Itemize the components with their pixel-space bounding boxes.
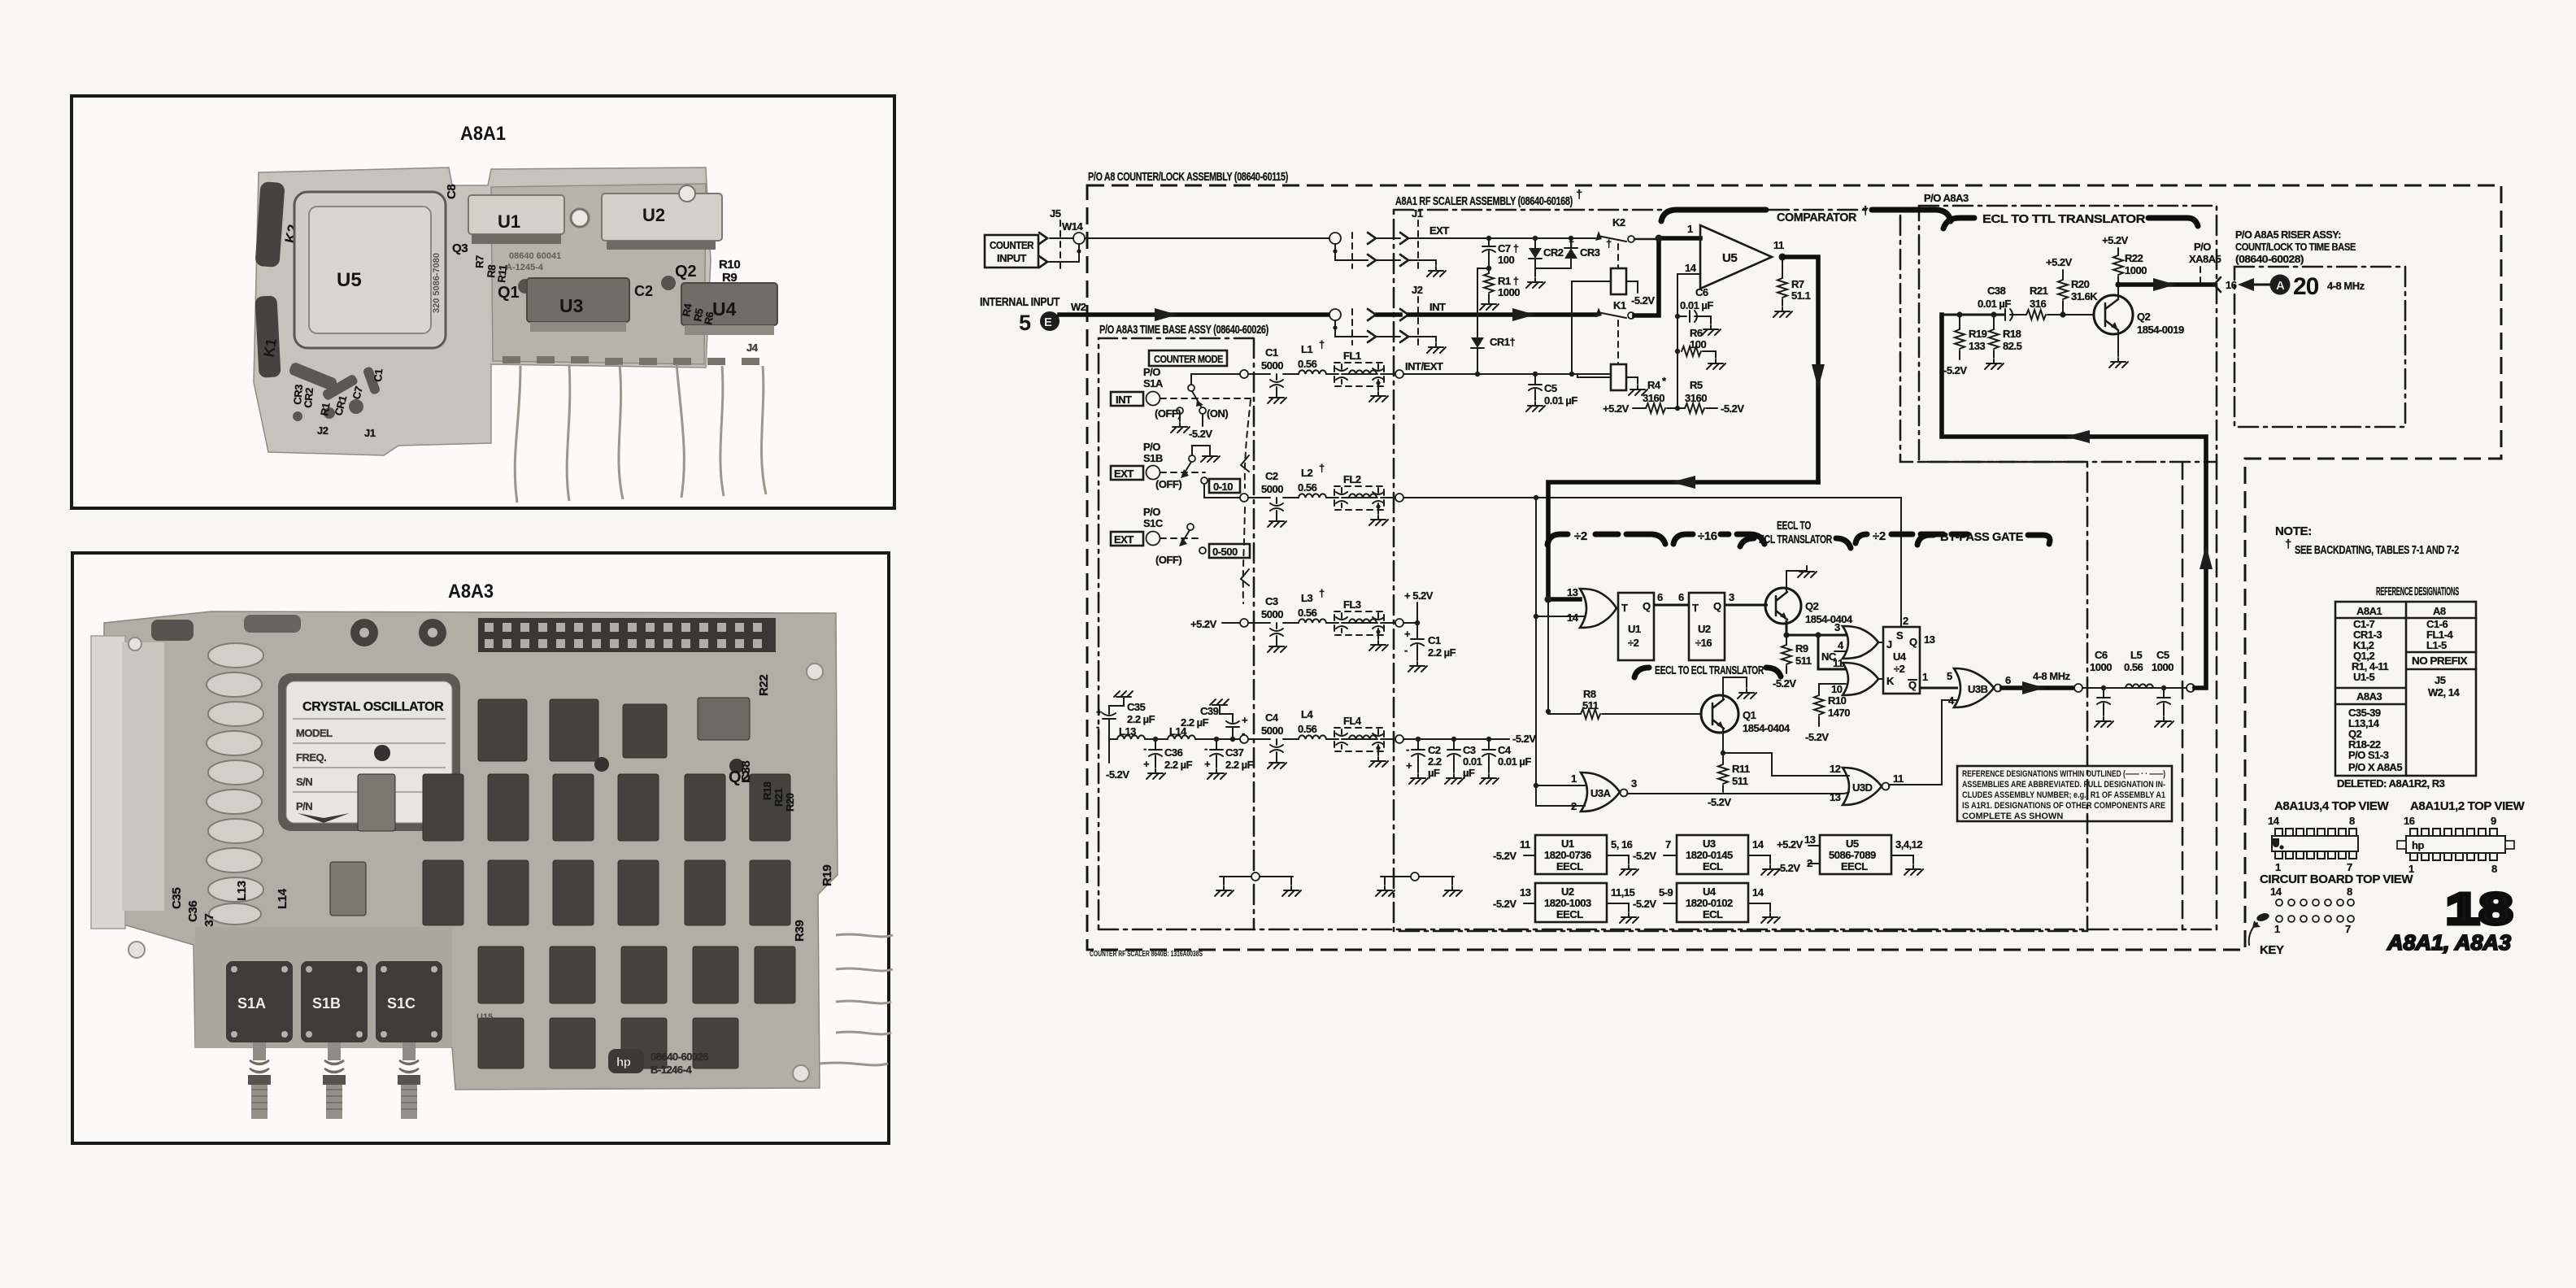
svg-text:U4: U4 xyxy=(1893,651,1907,663)
0-500 label xyxy=(1209,544,1250,558)
transistor cans xyxy=(374,745,744,773)
diode CR1 xyxy=(1471,337,1484,348)
svg-text:-5.2V: -5.2V xyxy=(1721,402,1744,415)
svg-text:+: + xyxy=(1404,628,1411,640)
svg-text:U2: U2 xyxy=(1698,623,1711,635)
wire U4 Qbar to U3B xyxy=(1920,687,1958,690)
resistor R7 xyxy=(1782,257,1783,278)
svg-text:COUNTER MODE: COUNTER MODE xyxy=(1154,353,1224,365)
capacitor C35 xyxy=(1103,701,1124,739)
filter FL1 xyxy=(1334,363,1384,386)
svg-text:16: 16 xyxy=(2226,279,2237,291)
svg-text:13: 13 xyxy=(1520,886,1531,899)
comparator title xyxy=(1661,210,1766,221)
relay K2 xyxy=(255,181,301,268)
resistor R1 xyxy=(1488,268,1490,273)
assembly boundary A8A3 TIME BASE xyxy=(1099,338,1254,929)
svg-text:KEY: KEY xyxy=(2260,943,2284,957)
svg-text:L13: L13 xyxy=(235,881,249,901)
svg-text:÷16: ÷16 xyxy=(1695,637,1712,649)
svg-text:U1: U1 xyxy=(1628,623,1641,635)
dark caps top left xyxy=(151,620,194,641)
wire INT line thick to K1 xyxy=(1409,312,1595,317)
wire EXT line to K2 xyxy=(1409,237,1595,239)
wire CR2 CR3 common to ground xyxy=(1535,268,1571,276)
svg-text:÷2: ÷2 xyxy=(1574,529,1587,543)
svg-text:J1: J1 xyxy=(364,427,376,439)
capacitor C3 0.01 xyxy=(1451,737,1456,742)
transistor Q2 (A8A1) xyxy=(1765,588,1801,624)
svg-text:L1-5: L1-5 xyxy=(2426,639,2447,651)
A8A3 dark DIP ICs grid xyxy=(330,698,795,1068)
svg-text:C1: C1 xyxy=(1428,634,1441,646)
svg-text:A8A1: A8A1 xyxy=(2356,605,2382,617)
filter FL3 xyxy=(1334,611,1384,635)
boundary dash at W14 connector xyxy=(1351,233,1353,268)
svg-text:C36: C36 xyxy=(186,901,200,922)
svg-text:1854-0019: 1854-0019 xyxy=(2137,324,2184,336)
svg-text:R22: R22 xyxy=(757,675,771,696)
svg-text:P/O A8A3 TIME BASE ASSY (08640: P/O A8A3 TIME BASE ASSY (08640-60026) xyxy=(1099,323,1268,337)
diode CR2 xyxy=(1533,236,1538,241)
inductor L14 xyxy=(1168,735,1195,739)
wire counter input lower pin xyxy=(1047,246,1079,262)
svg-text:(OFF): (OFF) xyxy=(1155,554,1181,566)
wire INT to J2 xyxy=(1377,312,1400,317)
svg-text:5000: 5000 xyxy=(1261,608,1283,620)
svg-text:08640 60041: 08640 60041 xyxy=(509,251,561,261)
svg-text:R6: R6 xyxy=(702,311,716,325)
COUNTER MODE label xyxy=(1149,350,1227,366)
svg-text:A8A3: A8A3 xyxy=(2356,690,2382,703)
svg-text:R8: R8 xyxy=(1583,688,1596,700)
svg-text:S1B: S1B xyxy=(1143,452,1163,464)
svg-text:IS A1R1. DESIGNATIONS OF OTH: IS A1R1. DESIGNATIONS OF OTHER COMPONENT… xyxy=(1962,801,2165,811)
svg-text:U15: U15 xyxy=(476,1012,493,1022)
transistor Q1 xyxy=(498,279,533,302)
svg-text:FL2: FL2 xyxy=(1343,473,1361,485)
svg-text:+5.2V: +5.2V xyxy=(2046,256,2073,268)
svg-text:R20: R20 xyxy=(784,793,796,812)
svg-text:1000: 1000 xyxy=(2152,661,2173,673)
svg-text:C38: C38 xyxy=(1987,285,2006,297)
lower left component cluster xyxy=(288,361,381,421)
svg-text:13: 13 xyxy=(1567,586,1578,598)
capacitor C2 5000 xyxy=(1268,498,1286,527)
C5 on INT/EXT line xyxy=(1533,372,1538,376)
wire EXT connector lower pin xyxy=(1335,251,1400,260)
svg-text:1820-0736: 1820-0736 xyxy=(1544,849,1591,861)
ground under R1 xyxy=(1480,300,1499,310)
svg-text:0.56: 0.56 xyxy=(2124,661,2143,673)
svg-text:÷2: ÷2 xyxy=(1873,529,1886,543)
svg-text:-5.2V: -5.2V xyxy=(1773,677,1796,690)
photo frame A8A1 xyxy=(72,96,894,508)
svg-text:0.56: 0.56 xyxy=(1298,358,1317,370)
svg-text:÷16: ÷16 xyxy=(1698,529,1717,543)
svg-text:R20: R20 xyxy=(2071,278,2090,290)
flip-flop U2 xyxy=(1689,593,1725,660)
svg-text:1854-0404: 1854-0404 xyxy=(1805,613,1853,625)
svg-text:4-8 MHz: 4-8 MHz xyxy=(2033,670,2071,682)
IC U1 xyxy=(468,195,564,244)
svg-text:Q2: Q2 xyxy=(2137,311,2151,323)
crystal U5 xyxy=(294,192,446,348)
section title divide-by-2 xyxy=(1547,534,1568,545)
svg-text:1820-0145: 1820-0145 xyxy=(1686,849,1733,861)
wire U2 Q to Q2 base xyxy=(1725,604,1768,607)
svg-text:Q1: Q1 xyxy=(1743,709,1756,721)
svg-text:U2: U2 xyxy=(642,205,665,225)
svg-text:31.6K: 31.6K xyxy=(2071,290,2098,302)
svg-text:6: 6 xyxy=(1657,591,1663,603)
Q2 emitter node xyxy=(1786,620,1788,635)
svg-text:*: * xyxy=(1662,375,1667,387)
svg-text:1000: 1000 xyxy=(1498,286,1520,298)
wire J1 lower pin to ground xyxy=(1410,260,1436,265)
wire K2 out to node xyxy=(1634,238,1659,241)
A20 flag 4-8 MHz xyxy=(2241,284,2270,286)
svg-text:-5.2V: -5.2V xyxy=(1512,733,1536,745)
OR gate U3B xyxy=(1954,668,1994,707)
svg-text:P/O X A8A5: P/O X A8A5 xyxy=(2348,761,2402,773)
capacitor C38 xyxy=(2005,309,2026,320)
svg-text:18: 18 xyxy=(2446,885,2513,933)
svg-text:µF: µF xyxy=(1428,767,1440,779)
svg-text:13: 13 xyxy=(1804,833,1816,846)
svg-text:L1: L1 xyxy=(1301,343,1312,355)
inductor L5 xyxy=(2122,687,2126,689)
svg-text:FL4: FL4 xyxy=(1343,715,1362,727)
svg-text:+: + xyxy=(1204,758,1211,770)
svg-text:2.2 µF: 2.2 µF xyxy=(1127,713,1155,725)
svg-text:R11: R11 xyxy=(495,264,509,283)
svg-text:R1: R1 xyxy=(318,402,333,416)
svg-text:2.2 µF: 2.2 µF xyxy=(1428,646,1456,659)
wire CR1 branch xyxy=(1486,266,1491,271)
svg-text:-5.2V: -5.2V xyxy=(1189,428,1212,440)
section title divide-by-16 xyxy=(1673,534,1693,544)
svg-text:U5: U5 xyxy=(1846,838,1859,850)
wire emitter to J/K gates xyxy=(1786,635,1847,669)
svg-text:-5.2V: -5.2V xyxy=(1631,294,1655,307)
connector J1 xyxy=(1400,233,1408,244)
svg-text:R7: R7 xyxy=(473,255,486,268)
svg-text:A8A1U3,4 TOP VIEW: A8A1U3,4 TOP VIEW xyxy=(2274,799,2389,813)
svg-text:8: 8 xyxy=(2491,863,2497,875)
svg-text:2.2 µF: 2.2 µF xyxy=(1181,716,1209,729)
svg-text:2.2 µF: 2.2 µF xyxy=(1225,759,1254,771)
-5.2V feed xyxy=(1108,739,1110,763)
svg-text:C3: C3 xyxy=(1463,744,1476,756)
svg-text:W2, 14: W2, 14 xyxy=(2428,686,2460,698)
capacitor C4 5000 xyxy=(1268,739,1286,768)
svg-text:U4: U4 xyxy=(712,298,737,320)
svg-text:0.01 µF: 0.01 µF xyxy=(1544,394,1577,407)
svg-text:A-1245-4: A-1245-4 xyxy=(506,263,544,272)
svg-text:2: 2 xyxy=(1571,800,1577,812)
flip-flop U4 xyxy=(1883,627,1920,694)
svg-text:A8A3: A8A3 xyxy=(448,581,494,603)
svg-text:R39: R39 xyxy=(793,920,807,942)
knob shafts xyxy=(248,1042,420,1119)
svg-text:hp: hp xyxy=(2412,839,2424,851)
svg-text:U1: U1 xyxy=(498,211,520,232)
svg-text:C35: C35 xyxy=(1127,701,1146,713)
svg-text:P/O: P/O xyxy=(2194,241,2211,253)
svg-text:NC: NC xyxy=(1821,651,1837,663)
svg-text:R21: R21 xyxy=(772,788,785,807)
svg-text:ASSEMBLIES ARE ABBREVIATED. F: ASSEMBLIES ARE ABBREVIATED. FULL DESIGNA… xyxy=(1962,780,2165,790)
svg-text:1: 1 xyxy=(2275,861,2281,873)
svg-text:S1C: S1C xyxy=(387,995,416,1012)
svg-text:R6: R6 xyxy=(1690,327,1703,339)
svg-text:3: 3 xyxy=(1631,777,1637,790)
wire EXT to J1 xyxy=(1377,237,1400,239)
U5 EECL block xyxy=(1820,835,1891,874)
svg-text:K1: K1 xyxy=(260,337,280,359)
svg-text:0.01 µF: 0.01 µF xyxy=(1498,755,1531,768)
svg-text:J1: J1 xyxy=(1412,207,1423,220)
resistor R19 xyxy=(1956,311,1962,317)
hole xyxy=(571,209,589,227)
svg-text:14: 14 xyxy=(1567,611,1579,624)
svg-text:T: T xyxy=(1621,602,1628,614)
svg-text:C39: C39 xyxy=(1200,705,1219,717)
svg-text:Q: Q xyxy=(1908,679,1917,691)
row2 wire to U4 S xyxy=(1395,494,1403,502)
NOR gate U3A xyxy=(1534,783,1538,788)
svg-text:U2: U2 xyxy=(1561,885,1574,898)
wire K1 out thick up to U5 pin1 xyxy=(1634,238,1700,315)
svg-text:51.1: 51.1 xyxy=(1791,289,1811,302)
svg-text:-5.2V: -5.2V xyxy=(1106,768,1129,781)
svg-text:-5.2V: -5.2V xyxy=(1493,850,1516,862)
svg-text:1000: 1000 xyxy=(2125,264,2147,276)
resistor R11 xyxy=(1722,753,1724,764)
svg-text:P/O A8A3: P/O A8A3 xyxy=(1924,192,1969,204)
svg-text:11: 11 xyxy=(1893,772,1904,785)
svg-text:511: 511 xyxy=(1795,655,1812,667)
boundary vertical P/O A8A3 right outer xyxy=(2216,462,2218,929)
resistor R21 xyxy=(2026,310,2046,320)
svg-text:L13: L13 xyxy=(1119,725,1136,738)
inductor L4 xyxy=(1299,735,1326,739)
svg-text:14: 14 xyxy=(1752,838,1764,851)
svg-text:C2: C2 xyxy=(1428,744,1441,756)
svg-text:5000: 5000 xyxy=(1261,724,1283,737)
svg-text:2.2 µF: 2.2 µF xyxy=(1164,759,1193,771)
svg-text:CR2: CR2 xyxy=(1543,246,1564,259)
assembly boundary P/O A8 COUNTER/LOCK xyxy=(1087,185,2501,950)
svg-text:C1: C1 xyxy=(372,368,385,382)
svg-text:-5.2V: -5.2V xyxy=(1633,898,1656,910)
svg-text:7: 7 xyxy=(2345,923,2351,935)
svg-text:R21: R21 xyxy=(2030,285,2048,297)
filter FL2 xyxy=(1334,486,1384,510)
svg-text:†: † xyxy=(2285,537,2291,551)
svg-text:R10: R10 xyxy=(1828,694,1847,707)
toroid stack xyxy=(207,643,263,925)
wire U3D up to U3B pin4 xyxy=(1889,700,1958,785)
svg-text:P/O: P/O xyxy=(1143,366,1160,378)
OR gate J input xyxy=(1843,626,1878,659)
svg-text:EXT: EXT xyxy=(1114,468,1134,480)
photo frame A8A3 xyxy=(72,553,889,1143)
boundary circle row1 right + INT/EXT xyxy=(1395,370,1403,378)
svg-text:Q3: Q3 xyxy=(452,241,468,255)
svg-text:0.01: 0.01 xyxy=(1463,755,1482,768)
crystal oscillator label xyxy=(278,673,460,831)
svg-text:-: - xyxy=(1096,720,1099,733)
capacitor C6 1000 xyxy=(2101,685,2106,690)
svg-text:CIRCUIT BOARD TOP VIEW: CIRCUIT BOARD TOP VIEW xyxy=(2260,872,2413,886)
svg-text:5, 16: 5, 16 xyxy=(1611,838,1633,851)
inductor L1 xyxy=(1299,370,1326,374)
svg-text:U1: U1 xyxy=(1561,838,1574,850)
wire INT/EXT branch down to U3A xyxy=(1535,498,1537,785)
mounting holes xyxy=(128,637,823,1081)
U1 EECL block xyxy=(1535,835,1607,874)
svg-text:INT: INT xyxy=(1429,301,1446,313)
svg-text:1470: 1470 xyxy=(1828,707,1850,719)
IC package U1,2 top view xyxy=(2397,829,2514,860)
svg-text:511: 511 xyxy=(1732,775,1748,787)
svg-text:XA8A5: XA8A5 xyxy=(2189,253,2221,265)
svg-text:P/O S1-3: P/O S1-3 xyxy=(2348,749,2389,761)
svg-text:C6: C6 xyxy=(2095,649,2108,661)
svg-text:14: 14 xyxy=(1685,262,1697,274)
svg-text:†: † xyxy=(1319,338,1325,350)
riser assy box xyxy=(2234,267,2405,427)
ground xyxy=(1427,343,1446,353)
svg-text:J4: J4 xyxy=(746,342,759,354)
svg-text:EECL: EECL xyxy=(1556,860,1583,872)
transistor Q2 (A8A3) xyxy=(2094,295,2133,334)
svg-text:R1 †: R1 † xyxy=(1498,275,1519,287)
svg-text:B-1246-4: B-1246-4 xyxy=(651,1064,692,1076)
U2 EECL block xyxy=(1535,883,1607,922)
svg-text:+5.2V: +5.2V xyxy=(2102,234,2129,246)
wire legs xyxy=(515,364,766,503)
switch S1C xyxy=(376,961,442,1042)
svg-text:3160: 3160 xyxy=(1643,392,1664,404)
svg-text:EECL TO ECL TRANSLATOR: EECL TO ECL TRANSLATOR xyxy=(1655,664,1764,677)
svg-text:3160: 3160 xyxy=(1685,392,1707,404)
capacitor C1 5000 xyxy=(1268,374,1286,403)
svg-text:P/O A8A5 RISER ASSY:: P/O A8A5 RISER ASSY: xyxy=(2235,228,2341,241)
svg-text:EECL: EECL xyxy=(1556,908,1583,920)
svg-text:+ 5.2V: + 5.2V xyxy=(1404,590,1434,602)
svg-text:R9: R9 xyxy=(1795,642,1808,655)
svg-text:08640-60026: 08640-60026 xyxy=(651,1051,708,1063)
svg-text:+5.2V: +5.2V xyxy=(1777,838,1804,851)
inductor L13 xyxy=(1117,735,1145,739)
svg-text:REFERENCE DESIGNATIONS WITHIN: REFERENCE DESIGNATIONS WITHIN OUTLINED (… xyxy=(1962,769,2165,779)
svg-text:11,15: 11,15 xyxy=(1611,886,1635,899)
svg-text:3: 3 xyxy=(1834,621,1840,633)
svg-text:5: 5 xyxy=(1947,670,1952,682)
svg-text:C6: C6 xyxy=(1695,286,1708,298)
svg-text:÷2: ÷2 xyxy=(1894,663,1905,675)
svg-text:A8A1 RF SCALER ASSEMBLY (0864: A8A1 RF SCALER ASSEMBLY (08640-60168) xyxy=(1395,194,1573,208)
svg-text:C35: C35 xyxy=(170,888,184,909)
svg-text:†: † xyxy=(1576,188,1582,202)
4-8 MHz bus xyxy=(2002,685,2074,690)
capacitor C3 5000 xyxy=(1268,623,1286,652)
svg-text:REFERENCE DESIGNATIONS: REFERENCE DESIGNATIONS xyxy=(2376,585,2459,598)
resistor R20 xyxy=(2060,311,2065,317)
svg-text:5086-7089: 5086-7089 xyxy=(1829,849,1876,861)
svg-text:1854-0404: 1854-0404 xyxy=(1743,722,1791,734)
svg-text:R10: R10 xyxy=(719,258,740,272)
svg-text:P/O A8 COUNTER/LOCK ASSEMBLY (: P/O A8 COUNTER/LOCK ASSEMBLY (08640-6011… xyxy=(1088,170,1288,184)
svg-text:14: 14 xyxy=(2270,885,2282,898)
wire INT connector lower pin xyxy=(1335,328,1400,337)
svg-text:Q: Q xyxy=(1643,600,1651,612)
svg-text:†: † xyxy=(1319,462,1325,474)
resistor R18 xyxy=(1991,311,1996,317)
svg-text:0.01 µF: 0.01 µF xyxy=(1680,299,1713,311)
svg-text:-5.2V: -5.2V xyxy=(1708,796,1731,808)
switch linkage dashed curve xyxy=(1243,400,1251,603)
wire stubs right edge xyxy=(820,934,893,1065)
svg-text:100: 100 xyxy=(1690,338,1706,350)
svg-text:1: 1 xyxy=(1687,223,1693,235)
svg-text:Q1: Q1 xyxy=(498,284,520,302)
svg-text:INT/EXT: INT/EXT xyxy=(1405,360,1443,372)
switch S1A xyxy=(226,961,293,1042)
svg-text:(OFF): (OFF) xyxy=(1155,407,1181,420)
svg-text:Q2: Q2 xyxy=(675,263,697,281)
capacitor C6 (A8A1) xyxy=(1675,314,1680,319)
svg-text:C7 †: C7 † xyxy=(1498,242,1519,255)
svg-text:1820-1003: 1820-1003 xyxy=(1544,897,1591,909)
COUNTER INPUT box xyxy=(985,235,1038,268)
svg-text:CR1†: CR1† xyxy=(1490,336,1516,348)
IC U4 xyxy=(681,283,777,335)
svg-text:S/N: S/N xyxy=(296,776,312,788)
svg-text:C4: C4 xyxy=(1265,711,1279,724)
svg-text:E: E xyxy=(1044,315,1052,329)
svg-text:1820-0102: 1820-0102 xyxy=(1686,897,1733,909)
wire Q1 emitter to U3D pin12 xyxy=(1723,753,1843,776)
section title BY-PASS GATE xyxy=(1917,535,1934,545)
XA5 connector xyxy=(478,618,776,652)
svg-text:S: S xyxy=(1896,629,1904,642)
chevrons EXT mid xyxy=(1368,233,1376,244)
svg-text:ECL TO TTL TRANSLATOR: ECL TO TTL TRANSLATOR xyxy=(1982,212,2146,226)
svg-text:NO PREFIX: NO PREFIX xyxy=(2412,655,2468,667)
svg-text:4: 4 xyxy=(1838,639,1844,651)
resistor R10 xyxy=(1819,684,1846,695)
svg-text:C5: C5 xyxy=(1544,382,1557,394)
svg-text:-5.2V: -5.2V xyxy=(1493,898,1516,910)
svg-text:ECL: ECL xyxy=(1703,908,1723,920)
resistor R6 xyxy=(1675,349,1680,354)
boundary vertical A8A3 right xyxy=(2182,462,2184,929)
switch S1B xyxy=(301,961,368,1042)
svg-text:L4: L4 xyxy=(1301,708,1313,720)
svg-text:-: - xyxy=(1204,742,1207,755)
svg-text:K1: K1 xyxy=(1613,299,1626,311)
svg-text:L3: L3 xyxy=(1301,592,1312,604)
svg-text:J: J xyxy=(1886,638,1892,651)
svg-text:82.5: 82.5 xyxy=(2003,340,2022,352)
svg-text:U3B: U3B xyxy=(1968,683,1988,695)
OR gate K input xyxy=(1843,663,1878,695)
svg-text:1: 1 xyxy=(2274,923,2280,935)
